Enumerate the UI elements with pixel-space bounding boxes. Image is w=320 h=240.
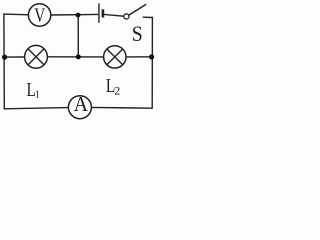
- svg-text:V: V: [34, 3, 45, 25]
- wire ammeter to bottom-right corner: [91, 106, 152, 109]
- voltmeter V: [28, 3, 50, 26]
- svg-text:2: 2: [114, 83, 120, 97]
- lamp L1: [25, 45, 48, 68]
- lamp L2: [104, 46, 126, 68]
- wire lamp row left: [4, 56, 24, 58]
- switch S: [124, 5, 146, 47]
- wire lamp row right: [126, 56, 152, 58]
- junction dot lamp-row left: [2, 55, 7, 60]
- svg-text:S: S: [132, 21, 143, 46]
- junction dot lamp-row middle: [76, 54, 81, 59]
- wire lamp row middle: [47, 56, 103, 58]
- wire left vertical: [3, 14, 5, 109]
- wire bottom left to ammeter: [4, 108, 68, 109]
- wire battery to switch: [104, 14, 124, 16]
- junction dot lamp-row right: [149, 54, 154, 59]
- wire right vertical: [151, 18, 153, 109]
- battery: [99, 3, 103, 22]
- wire switch to top-right corner: [143, 16, 152, 18]
- wire top-left to voltmeter: [4, 13, 29, 16]
- wire voltmeter to battery: [51, 13, 98, 16]
- junction dot top: [76, 13, 81, 18]
- ammeter A: [68, 94, 91, 119]
- wire middle vertical: [77, 15, 79, 57]
- svg-text:1: 1: [35, 90, 40, 101]
- svg-text:A: A: [74, 94, 89, 117]
